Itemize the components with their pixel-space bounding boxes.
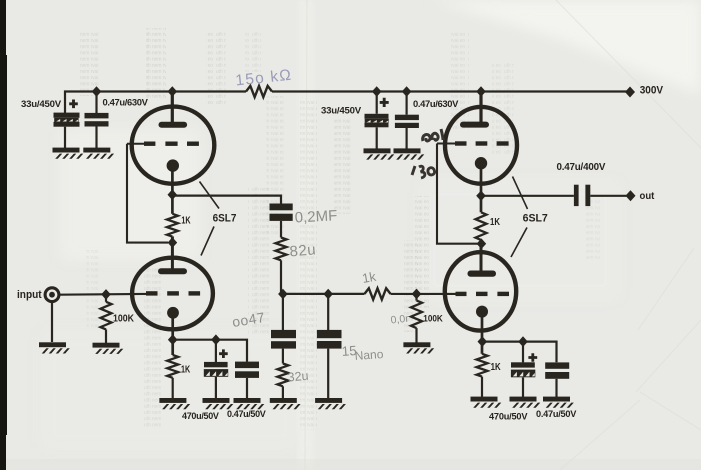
svg-text:0,2MF: 0,2MF bbox=[294, 207, 337, 226]
node: rail junction at 0.47u/630V right bbox=[402, 86, 412, 97]
ground below C11 bbox=[510, 397, 541, 408]
tube V4 lower triode 6SL7 envelope bbox=[445, 252, 516, 330]
ground below C12 bbox=[543, 397, 574, 408]
resistor R5 1K (V3 cathode) bbox=[476, 212, 501, 240]
pointer line V3 to label bbox=[513, 177, 528, 210]
svg-text:470u/50V: 470u/50V bbox=[182, 411, 219, 421]
ground below R4 bbox=[159, 398, 190, 409]
wire: V3 cathode down bbox=[480, 168, 483, 212]
ground below C3 bbox=[364, 148, 395, 159]
ghost bleed-through text columns (decorative) bbox=[79, 28, 600, 430]
resistor 32u (handwritten value) bbox=[277, 364, 288, 387]
node: at C8 bbox=[211, 334, 221, 345]
capacitor C7 15 nano (handwritten) bbox=[317, 330, 342, 349]
wire: V1 grid return (left, down to V2 plate node) bbox=[127, 144, 168, 243]
V4 cathode dot bbox=[476, 306, 488, 318]
node: input node bbox=[101, 289, 111, 300]
pointer line label to V2 bbox=[201, 227, 214, 256]
svg-text:out: out bbox=[640, 191, 655, 202]
capacitor C5 0.2MF coupling bbox=[270, 204, 293, 221]
wire: output node to C10 bbox=[481, 195, 574, 197]
resistor R6 1K (V4 cathode) bbox=[477, 354, 502, 397]
resistor R7 100K (V4 grid) bbox=[411, 294, 443, 343]
node: rail junction at V3 plate bbox=[476, 86, 486, 97]
wire: jack to ground bbox=[51, 302, 53, 342]
wire: V2 cathode down bbox=[171, 318, 174, 356]
capacitor C9 0.47u/50V bbox=[235, 362, 259, 399]
terminal: 300V bbox=[625, 87, 635, 98]
wire: node B down to C7 bbox=[327, 294, 329, 330]
node: mid node A bbox=[278, 289, 288, 300]
wire: 32u to ground bbox=[282, 386, 284, 398]
node: V2 cathode node bbox=[168, 334, 178, 345]
ground below 32u bbox=[270, 398, 301, 409]
wire: cathode node to bypass caps right bbox=[482, 342, 556, 363]
wire: B+ rail right section to 300V bbox=[272, 90, 627, 92]
capacitor C12 0.47u/50V (right) bbox=[545, 362, 569, 397]
wire: C6 to resistor 32u bbox=[282, 349, 284, 364]
svg-text:33u/450V: 33u/450V bbox=[321, 106, 362, 117]
V2 cathode dot bbox=[167, 307, 179, 319]
wire: input to V2 grid bbox=[59, 293, 146, 296]
ground below C2 bbox=[83, 148, 114, 159]
node: V3 cathode / output node bbox=[476, 191, 486, 202]
wire: C5 to R 82k bbox=[280, 221, 282, 238]
wire: V3 grid return (left, down to V4 plate node) bbox=[437, 144, 478, 244]
wire: node A down to C6 bbox=[282, 294, 284, 330]
tube V2 lower triode 6SL7 envelope bbox=[132, 258, 213, 330]
svg-text:input: input bbox=[17, 289, 42, 301]
svg-text:1K: 1K bbox=[491, 362, 502, 373]
wire: cathode node to bypass caps bbox=[173, 340, 247, 362]
svg-text:1K: 1K bbox=[490, 217, 501, 228]
node: SRPP mid node right (V4 plate) bbox=[477, 238, 487, 249]
svg-text:0.47u/400V: 0.47u/400V bbox=[557, 162, 606, 173]
terminal: out bbox=[626, 190, 636, 201]
V3 plate bar bbox=[460, 122, 489, 128]
resistor R3 100K (input) bbox=[101, 294, 135, 343]
dark scribble near V3 (lower) bbox=[412, 166, 435, 178]
node: rail junction at 0.47u/630V left bbox=[92, 86, 102, 97]
svg-text:6SL7: 6SL7 bbox=[213, 213, 237, 225]
node: V4 cathode node bbox=[478, 336, 488, 347]
resistor R4 1K (V2 cathode) bbox=[167, 355, 191, 399]
V3 grid (dashed) bbox=[437, 141, 509, 145]
node: V4 grid node bbox=[412, 289, 422, 300]
ground below C1 bbox=[53, 148, 84, 159]
wire: V1 cathode down bbox=[171, 170, 174, 214]
svg-text:0.47u/630V: 0.47u/630V bbox=[413, 98, 459, 109]
wire: B+ rail left section bbox=[65, 92, 246, 114]
resistor R2 1K (V1 cathode) bbox=[167, 214, 191, 237]
wire: R2 to V2 plate bbox=[171, 236, 174, 268]
wire: V4 cathode down bbox=[481, 317, 484, 354]
wire: V3 plate to rail bbox=[479, 92, 482, 123]
V2 plate bar bbox=[158, 268, 187, 274]
svg-text:32u: 32u bbox=[287, 369, 309, 385]
tube V1 upper triode 6SL7 envelope bbox=[132, 107, 215, 184]
input jack bbox=[45, 288, 59, 302]
svg-text:0,0r: 0,0r bbox=[390, 313, 410, 327]
V4 grid (dashed) bbox=[456, 292, 510, 296]
pointer line label to V4 bbox=[511, 228, 527, 258]
ground below R3 bbox=[93, 343, 124, 354]
wire: 82k down to mid node bbox=[280, 260, 282, 294]
V1 grid (dashed) bbox=[127, 142, 199, 146]
V4 plate bar bbox=[468, 271, 497, 277]
ground below C7 bbox=[315, 398, 346, 409]
ground below R6 bbox=[471, 397, 502, 408]
capacitor C6 0.0047 (handwritten) bbox=[271, 330, 296, 349]
wire: mid signal line bbox=[281, 293, 365, 295]
wire: C7 to ground bbox=[327, 349, 329, 399]
node: rail junction at V1 plate bbox=[168, 86, 178, 97]
ground below jack bbox=[39, 342, 70, 353]
capacitor C8 470u/50V electrolytic bbox=[204, 340, 228, 399]
V1 cathode dot bbox=[167, 159, 179, 171]
svg-text:Nano: Nano bbox=[354, 347, 384, 363]
node: SRPP mid node (V2 plate) bbox=[168, 237, 178, 248]
wire: 1k to V4 grid bbox=[391, 293, 457, 295]
V2 grid (dashed) bbox=[146, 291, 200, 295]
svg-text:1K: 1K bbox=[181, 364, 191, 375]
wire: V1 plate to rail bbox=[171, 92, 174, 123]
ground below C8 bbox=[203, 398, 234, 409]
dark scribble near V3 grid bbox=[423, 129, 443, 141]
node: at C11 bbox=[518, 336, 528, 347]
svg-text:6SL7: 6SL7 bbox=[523, 213, 548, 225]
svg-text:0.47u/630V: 0.47u/630V bbox=[103, 97, 149, 108]
svg-text:100K: 100K bbox=[423, 313, 443, 324]
pointer line V1 to label bbox=[200, 182, 220, 209]
capacitor C4 0.47u/630V (right) bbox=[395, 92, 459, 149]
resistor 82k (handwritten) bbox=[276, 238, 287, 261]
wire: V1 cathode to coupling cap C5 bbox=[172, 196, 281, 204]
svg-text:82u: 82u bbox=[289, 241, 317, 260]
capacitor C11 470u/50V electrolytic (right) bbox=[511, 342, 537, 397]
ground below C9 bbox=[234, 398, 265, 409]
capacitor C3 33u/450V electrolytic (right) bbox=[321, 92, 389, 149]
tube V3 upper triode 6SL7 envelope bbox=[445, 107, 517, 184]
svg-text:0.47u/50V: 0.47u/50V bbox=[536, 409, 577, 419]
wire: C10 to out terminal bbox=[590, 195, 626, 197]
svg-text:33u/450V: 33u/450V bbox=[21, 99, 62, 110]
V1 plate bar bbox=[159, 122, 188, 128]
svg-text:300V: 300V bbox=[640, 84, 664, 96]
node: rail junction at 33u/450V right bbox=[372, 86, 382, 97]
capacitor C2 0.47u/630V bbox=[85, 92, 149, 149]
ground below C4 bbox=[394, 148, 425, 159]
resistor 150k (handwritten value) on B+ rail bbox=[246, 86, 272, 97]
black scan edge strip bbox=[0, 0, 6, 470]
capacitor C10 0.47u/400V output coupling bbox=[557, 162, 606, 206]
capacitor C1 33u/450V electrolytic bbox=[21, 99, 80, 148]
ground below R7 bbox=[403, 342, 434, 353]
V3 cathode dot bbox=[475, 157, 487, 169]
wire: R5 to V4 plate bbox=[480, 240, 483, 271]
svg-text:470u/50V: 470u/50V bbox=[489, 412, 528, 422]
resistor 1k (handwritten, series) bbox=[365, 288, 391, 299]
svg-text:0.47u/50V: 0.47u/50V bbox=[227, 409, 266, 419]
node: V1 cathode / coupling node bbox=[168, 189, 178, 200]
svg-text:100K: 100K bbox=[113, 313, 135, 324]
node: mid node B bbox=[323, 289, 333, 300]
creases / wrinkles bbox=[305, 0, 701, 470]
svg-text:1K: 1K bbox=[181, 215, 191, 226]
